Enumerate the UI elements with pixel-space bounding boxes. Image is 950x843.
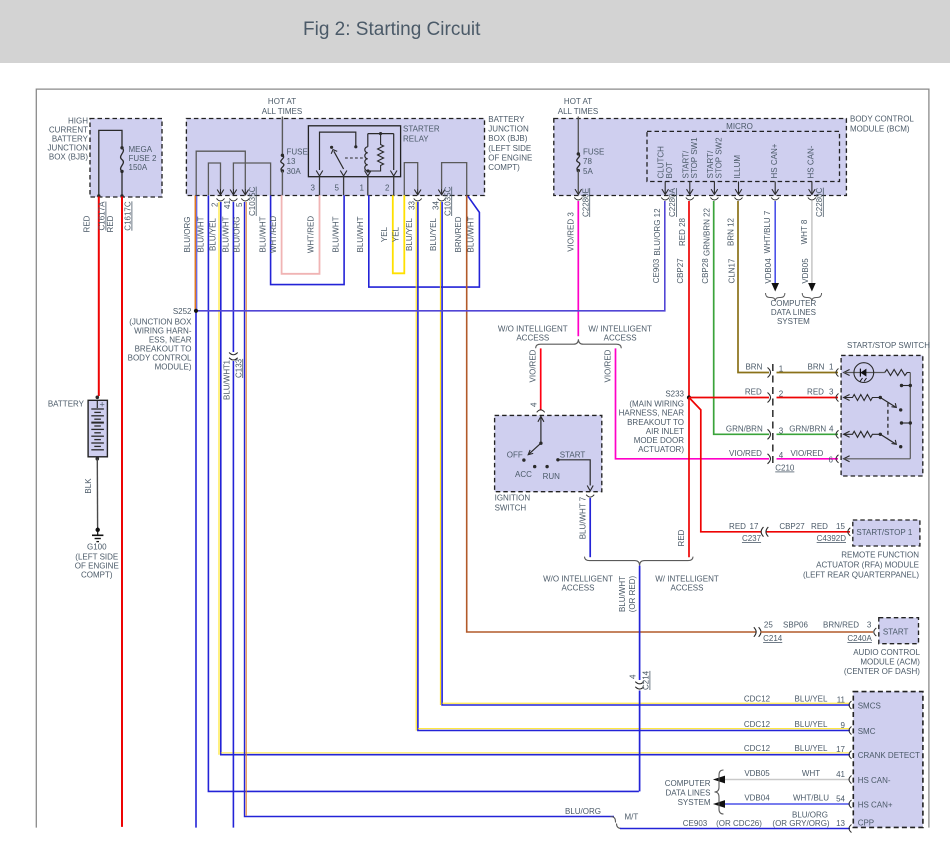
- svg-text:BREAKOUT TO: BREAKOUT TO: [135, 345, 192, 354]
- svg-text:RED: RED: [83, 215, 92, 232]
- high current battery junction box (BJB): [48, 117, 162, 198]
- svg-text:MEGA: MEGA: [129, 145, 153, 154]
- connector exit BLU/YEL 33: [408, 199, 422, 211]
- wire BLU/ORG below S252 to page bottom: [195, 311, 197, 828]
- fuse 13 30A: [281, 117, 308, 196]
- wire RED 28 CBP27 to S233: [688, 201, 690, 398]
- BCM micro pin START/STOP SW1: [682, 137, 700, 195]
- svg-text:BLU/WHT: BLU/WHT: [197, 216, 206, 252]
- svg-text:RUN: RUN: [543, 472, 561, 481]
- svg-text:VDB04: VDB04: [764, 258, 773, 284]
- svg-text:BLU/YEL: BLU/YEL: [795, 720, 828, 729]
- svg-text:START/STOP 1: START/STOP 1: [856, 528, 912, 537]
- START/STOP 1 box (RFA): [803, 520, 920, 580]
- svg-text:BLU/WHT 7: BLU/WHT 7: [578, 496, 587, 539]
- svg-text:WHT/RED: WHT/RED: [269, 216, 278, 254]
- connector C214 on vertical wire: [629, 670, 651, 690]
- svg-text:3: 3: [867, 621, 872, 630]
- arrow exit BLU/YEL 34: [438, 190, 445, 195]
- start/stop switch box: [841, 341, 930, 476]
- svg-text:DATA LINES: DATA LINES: [771, 308, 816, 317]
- svg-text:BOT: BOT: [665, 162, 674, 179]
- svg-text:OF ENGINE: OF ENGINE: [488, 153, 532, 162]
- svg-text:HS CAN+: HS CAN+: [858, 801, 893, 810]
- svg-text:WHT 8: WHT 8: [800, 219, 809, 244]
- svg-text:BLU/WHT: BLU/WHT: [222, 216, 231, 252]
- svg-text:(LEFT SIDE: (LEFT SIDE: [488, 144, 531, 153]
- svg-text:C1035C: C1035C: [248, 186, 257, 216]
- svg-text:SBP06: SBP06: [783, 621, 808, 630]
- wire VIO/RED magenta branch to switch row4: [604, 348, 839, 458]
- svg-text:CRANK DETECT: CRANK DETECT: [858, 751, 920, 760]
- svg-text:BREAKOUT TO: BREAKOUT TO: [627, 418, 684, 427]
- svg-text:ACCESS: ACCESS: [671, 584, 704, 593]
- svg-text:3: 3: [779, 426, 784, 435]
- svg-text:IGNITION: IGNITION: [495, 494, 531, 503]
- svg-text:STOP SW1: STOP SW1: [690, 137, 699, 179]
- switch internal row1 LED and resistor: [844, 363, 911, 383]
- svg-text:JUNCTION: JUNCTION: [48, 144, 89, 153]
- svg-text:START: START: [560, 451, 586, 460]
- connector exit WHT/BLU 7: [763, 198, 779, 284]
- svg-text:BLU/ORG: BLU/ORG: [183, 216, 192, 252]
- wire BLU/WHT 41 via C133 to page bottom: [222, 202, 234, 828]
- svg-text:VDB04: VDB04: [744, 794, 770, 803]
- svg-text:BLU/WHT: BLU/WHT: [356, 216, 365, 252]
- svg-text:BLU/WHT: BLU/WHT: [467, 216, 476, 252]
- svg-text:YEL: YEL: [380, 226, 389, 242]
- relay coil: [365, 132, 394, 173]
- svg-text:S233: S233: [665, 389, 684, 398]
- svg-text:WHT: WHT: [802, 769, 820, 778]
- svg-text:HIGH: HIGH: [68, 117, 88, 126]
- battery: [48, 396, 108, 461]
- connector exit BRN 12: [727, 198, 743, 284]
- svg-text:MICRO: MICRO: [726, 122, 753, 131]
- svg-text:(JUNCTION BOX: (JUNCTION BOX: [129, 318, 192, 327]
- wire RED S233 branch to RFA row: [689, 398, 850, 532]
- M/T brace on CPP wire: [565, 807, 638, 829]
- connector exit BLU/WHT 41: [223, 199, 237, 210]
- label HOT AT ALL TIMES (fuse 13): [262, 97, 302, 116]
- svg-text:BRN: BRN: [808, 363, 825, 372]
- svg-text:BATTERY: BATTERY: [52, 135, 89, 144]
- svg-text:BLU/WHT: BLU/WHT: [259, 216, 268, 252]
- svg-text:(LEFT SIDE: (LEFT SIDE: [75, 553, 118, 562]
- svg-text:W/O INTELLIGENT: W/O INTELLIGENT: [543, 575, 613, 584]
- wire RED battery feed C1617A: [83, 197, 107, 397]
- svg-text:CDC12: CDC12: [744, 695, 771, 704]
- svg-text:SYSTEM: SYSTEM: [777, 317, 810, 326]
- svg-text:COMPUTER: COMPUTER: [771, 299, 817, 308]
- splice S252: [128, 307, 198, 372]
- connector exit BLU/ORG 5: [235, 186, 257, 216]
- wire RED S233 down to merge brace: [677, 398, 689, 558]
- wire WHT/RED U fuse13 to pin3: [269, 195, 320, 273]
- row HS CAN+ VDB04 WHT/BLU 54: [713, 794, 893, 810]
- ground G100: [75, 527, 119, 580]
- connector exit BLU/ORG 12 C2280A: [652, 187, 677, 283]
- svg-text:RED: RED: [106, 215, 115, 232]
- svg-text:STARTER: STARTER: [403, 125, 440, 134]
- svg-text:33: 33: [408, 201, 417, 210]
- svg-text:SMC: SMC: [858, 727, 876, 736]
- svg-text:COMPT): COMPT): [488, 163, 520, 172]
- svg-text:BLU/ORG: BLU/ORG: [565, 807, 601, 816]
- svg-text:SWITCH: SWITCH: [495, 504, 527, 513]
- svg-text:34: 34: [431, 201, 440, 210]
- svg-text:S252: S252: [173, 307, 192, 316]
- svg-text:RED 28: RED 28: [678, 217, 687, 246]
- svg-text:RED: RED: [677, 529, 686, 546]
- svg-text:CDC12: CDC12: [744, 744, 771, 753]
- svg-text:BRN: BRN: [745, 363, 762, 372]
- svg-text:5: 5: [335, 184, 340, 193]
- svg-text:WHT/BLU 7: WHT/BLU 7: [763, 210, 772, 253]
- PCM box: [853, 692, 923, 828]
- svg-text:78: 78: [583, 157, 592, 166]
- row SMCS CDC12 BLU/YEL 11: [744, 695, 881, 711]
- wire VIO/RED (red) branch to ignition switch: [529, 348, 541, 410]
- svg-text:6: 6: [829, 456, 834, 465]
- wire BLU/YEL 33 to SMC row: [405, 202, 850, 731]
- relay resistor: [368, 134, 394, 171]
- arrow exit BLU/ORG 5: [242, 190, 249, 195]
- svg-text:C210: C210: [775, 464, 795, 473]
- svg-text:START: START: [883, 628, 909, 637]
- svg-text:1: 1: [829, 363, 834, 372]
- wire BLU/YEL 34 to SMCS row: [429, 202, 850, 705]
- svg-text:VDB05: VDB05: [801, 258, 810, 284]
- title banner: [0, 0, 950, 63]
- wire BLU/WHT U pin5: [259, 195, 345, 284]
- svg-text:5A: 5A: [583, 167, 593, 176]
- svg-text:5: 5: [235, 202, 244, 207]
- svg-text:JUNCTION: JUNCTION: [488, 125, 529, 134]
- svg-text:BLK: BLK: [84, 478, 93, 494]
- svg-text:BLU/YEL: BLU/YEL: [429, 217, 438, 250]
- svg-text:C2280E: C2280E: [581, 188, 590, 217]
- svg-text:G100: G100: [87, 543, 107, 552]
- svg-text:CBP28: CBP28: [701, 258, 710, 284]
- svg-text:ESS, NEAR: ESS, NEAR: [149, 336, 192, 345]
- wire BLU/WHT pin1 U to diagonal: [356, 195, 480, 287]
- BCM micro pin ILLUM: [733, 155, 742, 195]
- svg-text:BRN/RED: BRN/RED: [454, 216, 463, 252]
- micro box: [647, 122, 840, 181]
- row HS CAN- VDB05 WHT 41: [713, 769, 891, 785]
- svg-text:MODE DOOR: MODE DOOR: [634, 436, 684, 445]
- wire BLU/ORG CE903 CPP row: [620, 810, 874, 832]
- fuse 78 5A: [575, 117, 604, 195]
- row CRANK DETECT CDC12 BLU/YEL 17: [744, 744, 920, 760]
- svg-text:CE903: CE903: [652, 258, 661, 283]
- svg-text:DATA LINES: DATA LINES: [665, 789, 710, 798]
- svg-text:ACTUATOR (RFA) MODULE: ACTUATOR (RFA) MODULE: [816, 561, 919, 570]
- svg-text:STOP SW2: STOP SW2: [715, 137, 724, 179]
- svg-text:WHT/BLU: WHT/BLU: [793, 794, 829, 803]
- BCM micro pin START/STOP SW2: [706, 137, 724, 195]
- svg-text:AIR INLET: AIR INLET: [646, 427, 684, 436]
- wire BLU/WHT (OR RED) down from merge: [618, 566, 640, 680]
- wire BLU/WHT 7 to merge brace: [589, 498, 591, 557]
- connector exit WHT 8 C2280C: [800, 187, 824, 283]
- wire BLU/ORG 12 CE903 to S252 line: [196, 201, 665, 311]
- wire BLU/YEL 2 to crank detect row: [209, 202, 850, 755]
- svg-text:ILLUM: ILLUM: [733, 155, 742, 179]
- svg-text:HARNESS, NEAR: HARNESS, NEAR: [619, 409, 685, 418]
- svg-text:4: 4: [779, 451, 784, 460]
- svg-text:FUSE: FUSE: [583, 148, 604, 157]
- svg-text:SYSTEM: SYSTEM: [678, 798, 711, 807]
- svg-text:1: 1: [360, 184, 365, 193]
- svg-text:2: 2: [385, 184, 390, 193]
- svg-text:ALL TIMES: ALL TIMES: [262, 107, 302, 116]
- svg-text:CPP: CPP: [858, 819, 874, 828]
- svg-text:C214: C214: [642, 670, 651, 690]
- svg-text:C240A: C240A: [847, 634, 872, 643]
- brace split W/O | W/ intelligent access: [498, 325, 652, 349]
- svg-text:RED: RED: [745, 388, 762, 397]
- wire BLU/WHT (OR RED) from C214 to BLU/WHT junction: [639, 691, 641, 792]
- svg-text:VIO/RED: VIO/RED: [529, 349, 538, 382]
- svg-text:WHT/RED: WHT/RED: [307, 216, 316, 254]
- svg-text:BODY CONTROL: BODY CONTROL: [128, 354, 192, 363]
- relay switch contact: [320, 132, 367, 170]
- svg-text:ALL TIMES: ALL TIMES: [558, 107, 598, 116]
- wire BRN 12 CLN17 to switch row1: [738, 201, 838, 373]
- svg-text:13: 13: [836, 819, 845, 828]
- svg-text:25: 25: [764, 621, 773, 630]
- switch internal row2 resistor and arm: [844, 395, 903, 412]
- svg-text:GRN/BRN: GRN/BRN: [789, 424, 826, 433]
- svg-text:BLU/YEL: BLU/YEL: [209, 217, 218, 250]
- svg-text:BLU/WHT: BLU/WHT: [618, 576, 627, 612]
- svg-text:START/STOP SWITCH: START/STOP SWITCH: [847, 341, 930, 350]
- svg-text:VDB05: VDB05: [744, 769, 770, 778]
- svg-text:BLU/YEL: BLU/YEL: [795, 695, 828, 704]
- switch internal row4 line to rail: [844, 456, 911, 462]
- row3 GRN/BRN connector and labels: [726, 424, 839, 439]
- battery junction box (BJB): [186, 115, 532, 196]
- svg-text:(OR RED): (OR RED): [628, 575, 637, 612]
- svg-text:9: 9: [841, 721, 846, 730]
- svg-text:HS CAN+: HS CAN+: [770, 143, 779, 178]
- wire BLU/ORG left (orange above S252): [183, 196, 197, 311]
- row SMC CDC12 BLU/YEL 9: [744, 720, 876, 736]
- BCM micro pin HS CAN-: [807, 145, 816, 194]
- svg-text:BLU/WHT: BLU/WHT: [222, 364, 231, 400]
- svg-text:MODULE (ACM): MODULE (ACM): [860, 658, 920, 667]
- svg-text:30A: 30A: [287, 167, 302, 176]
- svg-text:15: 15: [836, 522, 845, 531]
- svg-text:ACC: ACC: [515, 470, 532, 479]
- ACM row labels 25 SBP06 BRN/RED 3 C214 C240A: [754, 621, 877, 644]
- svg-text:(MAIN WIRING: (MAIN WIRING: [629, 400, 684, 409]
- svg-text:HOT AT: HOT AT: [564, 97, 592, 106]
- svg-text:CBP27: CBP27: [779, 522, 805, 531]
- svg-text:C2280A: C2280A: [668, 187, 677, 217]
- wire BRN/RED SBP06 to ACM: [761, 631, 874, 633]
- svg-text:3: 3: [311, 184, 316, 193]
- svg-text:(OR CDC26): (OR CDC26): [716, 819, 762, 828]
- RFA row labels RED 17 C237 CBP27 RED 15 C4392D: [729, 522, 850, 543]
- body control module (BCM) box: [554, 115, 915, 196]
- svg-text:GRN/BRN: GRN/BRN: [726, 424, 763, 433]
- brace computer data lines (PCM): [665, 770, 724, 814]
- svg-text:BATTERY: BATTERY: [48, 400, 85, 409]
- relay pin arrows 3 5 1 2: [311, 171, 397, 196]
- svg-text:CURRENT: CURRENT: [49, 126, 88, 135]
- svg-text:RED: RED: [807, 388, 824, 397]
- contact pair 1: [900, 384, 912, 387]
- svg-text:AUDIO CONTROL: AUDIO CONTROL: [853, 648, 920, 657]
- wire internal loop 3: [233, 163, 270, 195]
- svg-text:17: 17: [750, 522, 759, 531]
- ignition switch box: [495, 415, 602, 512]
- svg-text:BRN 12: BRN 12: [727, 217, 736, 246]
- label HOT AT ALL TIMES (fuse 78): [558, 97, 598, 116]
- connector entry 4 ignition switch: [530, 402, 545, 412]
- BCM micro pin CLUTCH BOT: [657, 146, 675, 195]
- svg-text:+: +: [100, 400, 105, 410]
- svg-text:GRN/BRN 22: GRN/BRN 22: [702, 207, 711, 256]
- svg-text:CLN17: CLN17: [728, 258, 737, 283]
- splice S233: [619, 389, 691, 454]
- svg-text:BATTERY: BATTERY: [488, 115, 525, 124]
- wire VIO/RED from BCM to split: [577, 201, 579, 336]
- svg-text:W/ INTELLIGENT: W/ INTELLIGENT: [588, 325, 652, 334]
- wire YEL U pin2: [380, 195, 405, 273]
- wire internal loop 1 (BLU/ORG feed): [196, 151, 245, 195]
- svg-text:OF ENGINE: OF ENGINE: [75, 562, 119, 571]
- svg-text:BLU/ORG: BLU/ORG: [233, 216, 242, 252]
- wire internal loop 4 (to BLU/YEL 33): [404, 163, 417, 196]
- svg-text:BODY CONTROL: BODY CONTROL: [850, 115, 914, 124]
- svg-text:2: 2: [211, 202, 220, 207]
- mega fuse 2 150A: [97, 145, 157, 198]
- wire WHT/BLU VDB04 to data-lines arrow: [771, 201, 779, 292]
- svg-text:BLU/YEL: BLU/YEL: [405, 217, 414, 250]
- svg-text:C133: C133: [234, 358, 243, 378]
- contact pair 2: [900, 421, 912, 424]
- connector exit RED 28: [676, 198, 694, 284]
- svg-text:C237: C237: [742, 534, 762, 543]
- svg-text:MODULE): MODULE): [155, 363, 192, 372]
- svg-text:HOT AT: HOT AT: [268, 97, 296, 106]
- svg-text:54: 54: [836, 795, 845, 804]
- svg-text:BLU/ORG 12: BLU/ORG 12: [653, 208, 662, 256]
- connector exit BLU/YEL 34: [431, 186, 452, 216]
- wire RED C1617C long down: [106, 197, 133, 827]
- svg-text:17: 17: [836, 745, 845, 754]
- svg-text:41: 41: [223, 200, 232, 209]
- svg-text:RED: RED: [729, 522, 746, 531]
- svg-text:CDC12: CDC12: [744, 720, 771, 729]
- svg-text:13: 13: [287, 157, 296, 166]
- wire BLK battery negative: [84, 459, 98, 527]
- starter relay box: [308, 125, 439, 177]
- wire internal loop 5 (BLU/YEL 34 to BRN/RED): [442, 163, 467, 196]
- svg-text:(CENTER OF DASH): (CENTER OF DASH): [844, 667, 920, 676]
- svg-text:OFF: OFF: [507, 451, 523, 460]
- svg-text:SMCS: SMCS: [858, 702, 881, 711]
- svg-text:(LEFT REAR QUARTERPANEL): (LEFT REAR QUARTERPANEL): [803, 571, 919, 580]
- brace merge W/O | W/ intelligent access: [543, 557, 719, 593]
- row4 VIO/RED connector and labels C210: [729, 364, 838, 473]
- svg-text:VIO/RED: VIO/RED: [729, 449, 762, 458]
- svg-text:C4392D: C4392D: [817, 534, 847, 543]
- svg-text:(OR GRY/ORG): (OR GRY/ORG): [772, 819, 830, 828]
- switch common rail: [909, 373, 911, 459]
- svg-text:BRN/RED: BRN/RED: [823, 621, 859, 630]
- svg-text:BOX (BJB): BOX (BJB): [49, 153, 88, 162]
- svg-text:ACCESS: ACCESS: [604, 334, 637, 343]
- connector exit GRN/BRN 22: [701, 198, 718, 284]
- svg-text:VIO/RED: VIO/RED: [790, 449, 823, 458]
- svg-text:ACCESS: ACCESS: [562, 584, 595, 593]
- BCM micro pin HS CAN+: [770, 143, 779, 194]
- svg-text:FUSE 2: FUSE 2: [129, 154, 158, 163]
- svg-text:ACTUATOR): ACTUATOR): [638, 445, 684, 454]
- svg-text:4: 4: [629, 674, 638, 679]
- svg-text:BLU/WHT: BLU/WHT: [332, 216, 341, 252]
- START box (ACM): [844, 618, 921, 676]
- wire BLU/ORG 5 to M/T brace: [233, 202, 614, 817]
- connector exit BLU/YEL 2: [211, 199, 225, 208]
- svg-text:REMOTE FUNCTION: REMOTE FUNCTION: [841, 551, 919, 560]
- svg-text:RED: RED: [811, 522, 828, 531]
- wire RED S233 row2 to switch: [689, 397, 838, 399]
- connector exit BLU/WHT 7: [578, 495, 594, 540]
- svg-text:4: 4: [829, 424, 834, 433]
- svg-text:HS CAN-: HS CAN-: [807, 145, 816, 178]
- row1 BRN connector and labels: [745, 363, 838, 378]
- svg-text:WIRING HARN-: WIRING HARN-: [134, 327, 192, 336]
- svg-text:11: 11: [837, 696, 846, 705]
- svg-text:BOX (BJB): BOX (BJB): [488, 134, 527, 143]
- svg-text:W/ INTELLIGENT: W/ INTELLIGENT: [655, 575, 719, 584]
- svg-text:RELAY: RELAY: [403, 135, 429, 144]
- row2 RED connector and labels: [745, 388, 839, 403]
- connector exit VIO/RED 3 C2280E: [566, 188, 590, 252]
- arrow exit BLU/YEL 2: [217, 190, 224, 195]
- wire internal loop 2: [208, 163, 220, 195]
- wire WHT VDB05 to data-lines arrow: [808, 201, 816, 292]
- svg-text:VIO/RED 3: VIO/RED 3: [566, 212, 575, 252]
- connector C133 on BLU/WHT 41 wire: [222, 353, 243, 401]
- svg-text:C1035C: C1035C: [443, 186, 452, 216]
- svg-text:2: 2: [779, 390, 784, 399]
- svg-text:4: 4: [530, 402, 539, 407]
- wire GRN/BRN 22 CBP28 to switch row3: [714, 201, 838, 434]
- svg-text:C214: C214: [763, 634, 783, 643]
- svg-text:150A: 150A: [129, 163, 148, 172]
- svg-text:ACCESS: ACCESS: [516, 334, 549, 343]
- svg-text:1: 1: [779, 365, 784, 374]
- wire BRN/RED to ACM row: [454, 196, 756, 633]
- svg-text:W/O INTELLIGENT: W/O INTELLIGENT: [498, 325, 568, 334]
- svg-text:C2280C: C2280C: [815, 187, 824, 217]
- mechanical link dashed: [887, 403, 889, 438]
- svg-text:YEL: YEL: [392, 226, 401, 242]
- svg-text:41: 41: [836, 770, 845, 779]
- svg-text:COMPUTER: COMPUTER: [665, 779, 711, 788]
- svg-text:M/T: M/T: [625, 812, 639, 821]
- svg-text:C1617C: C1617C: [124, 201, 133, 231]
- svg-text:HS CAN-: HS CAN-: [858, 776, 891, 785]
- svg-text:3: 3: [829, 388, 834, 397]
